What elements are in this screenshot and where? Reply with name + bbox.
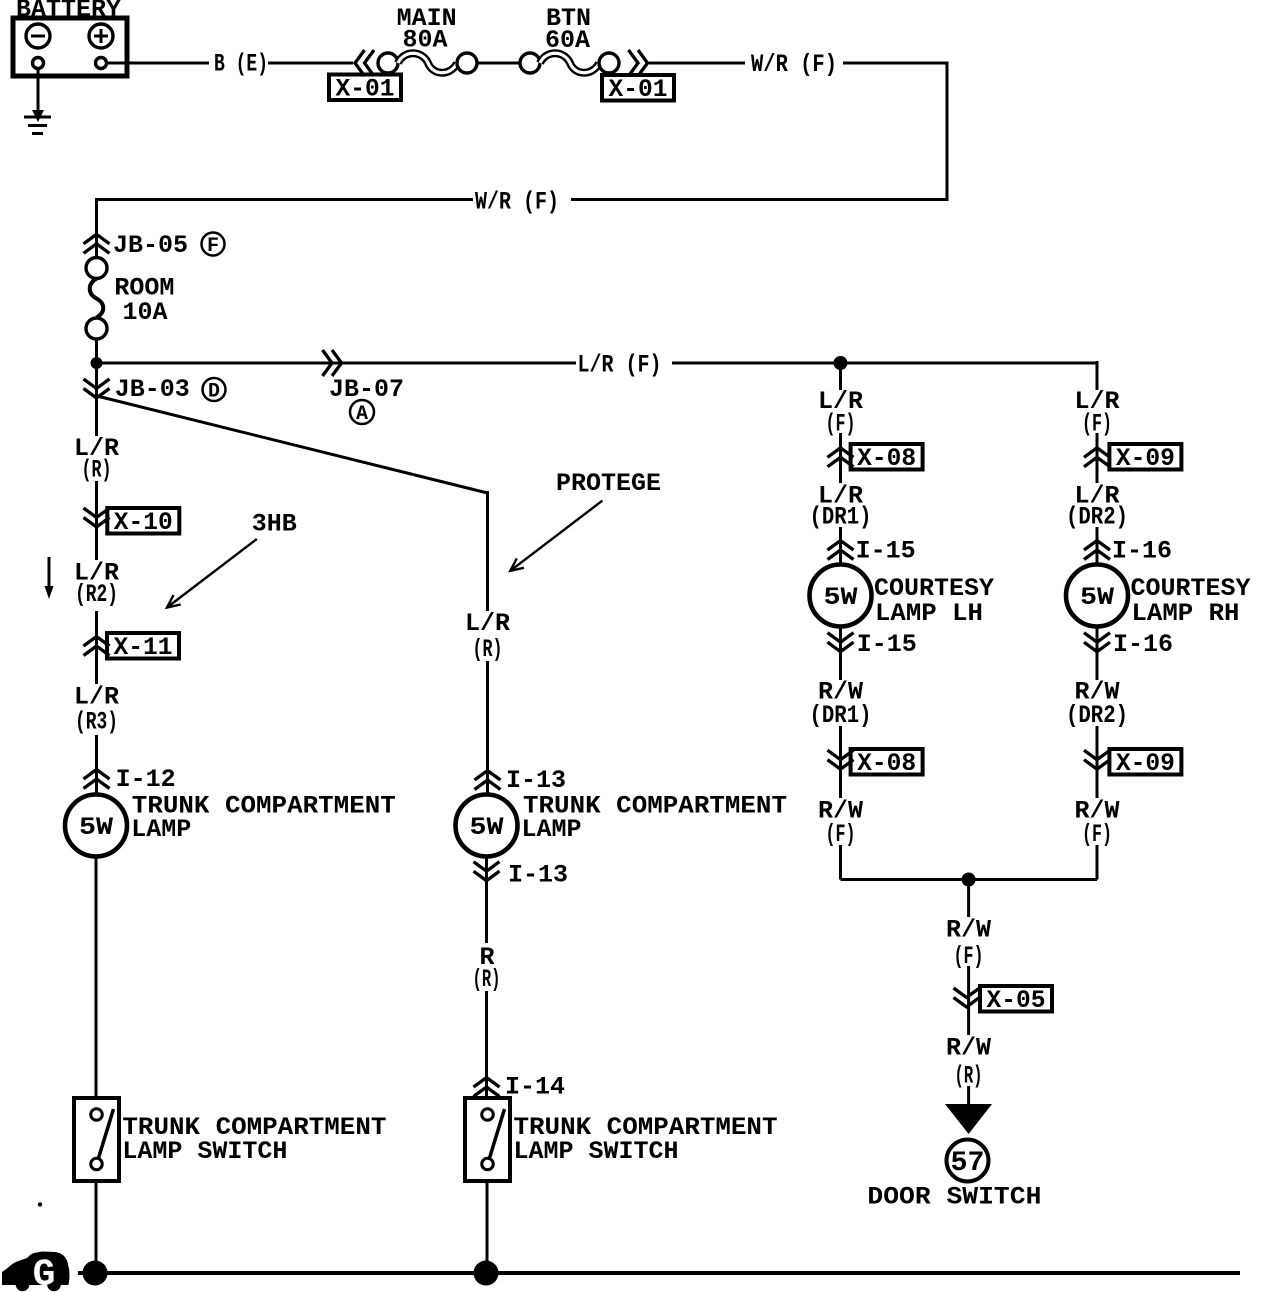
svg-text:X-09: X-09 [1116,444,1175,473]
connector chevron X-01 right [629,50,648,76]
connector X-08 upper [851,444,923,473]
wire R/W DR2 to X-09 lower [1096,726,1099,798]
stray dot [38,1202,42,1206]
svg-text:10A: 10A [123,298,168,327]
battery negative terminal [26,24,50,48]
svg-text:R/W: R/W [946,916,991,945]
svg-text:LAMP: LAMP [131,815,191,844]
connector chevron I-15 lower [828,633,854,652]
wire to X-08 upper [839,433,842,483]
svg-text:57: 57 [951,1148,985,1179]
svg-text:I-16: I-16 [1113,630,1173,659]
svg-text:D: D [208,381,220,404]
svg-text:I-15: I-15 [857,630,917,659]
bus courtesy lamps join [841,878,1098,881]
svg-text:(F): (F) [826,820,856,849]
wire PROTEGE branch vertical top [486,491,489,611]
svg-text:X-05: X-05 [987,986,1046,1015]
battery positive terminal [89,24,113,48]
wire (R3) to I-12 [95,735,98,795]
svg-text:F: F [207,235,219,258]
ground symbol [24,110,51,134]
wire DR2 to I-16 [1096,527,1099,565]
wire R/W F LH to bottom bus [839,845,842,880]
wire courtesy RH drop [1096,361,1099,390]
junction dot node A1 [91,357,103,369]
wire courtesy LH drop [839,363,842,390]
battery positive post [96,58,107,69]
wire switch to ground bus mid [486,1181,489,1273]
wire B(E) to connector X-01 [268,62,353,65]
wire R/W F to X-05 [967,966,970,1035]
wire DR1 to I-15 [839,527,842,565]
svg-text:JB-03: JB-03 [115,375,190,404]
junction chevron JB-03 [84,379,110,398]
ground bus [78,1271,1240,1275]
svg-text:LAMP: LAMP [522,815,582,844]
svg-text:5W: 5W [470,813,504,842]
svg-text:(DR1): (DR1) [810,701,872,730]
bus L/R(F) right segment [672,362,1099,365]
svg-text:3HB: 3HB [252,510,297,539]
wire lamp to switch left [95,857,98,1099]
svg-text:X-01: X-01 [609,75,668,104]
connector chevron X-08 upper [828,448,854,467]
circled letter A [350,400,374,426]
door switch pin 57 [947,1140,989,1182]
svg-text:(R3): (R3) [75,708,118,737]
wire W/R(F) to right corner [843,62,949,65]
connector X-09 lower [1109,749,1181,778]
svg-text:G: G [33,1254,56,1292]
trunk compartment lamp switch 3HB [74,1098,119,1181]
circled letter D [203,378,226,404]
arrow to door switch [945,1104,992,1134]
trunk compartment lamp Protege [456,795,518,857]
svg-text:W/R (F): W/R (F) [475,188,559,217]
wire diagonal PROTEGE branch [99,397,488,494]
junction dot ground mid [474,1261,499,1286]
svg-text:X-09: X-09 [1116,749,1175,778]
wire R(R) to I-14 [485,991,488,1098]
connector chevron X-10 [84,508,110,527]
connector chevron I-13 upper [475,771,501,790]
svg-text:A: A [356,403,368,426]
wire courtesy RH to R/W [1096,626,1099,680]
connector chevron X-05 [954,988,980,1007]
svg-text:LAMP LH: LAMP LH [875,599,983,628]
connector chevron I-13 lower [474,862,500,881]
wire L/R(R) to X-10 [95,481,98,560]
down arrow marker [45,557,54,599]
connector chevron I-16 upper [1084,541,1110,560]
svg-text:I-13: I-13 [508,861,568,890]
svg-text:L/R: L/R [465,609,510,638]
connector X-05 [980,986,1052,1015]
wire L/R(R) to I-13 [486,661,489,795]
svg-text:(DR2): (DR2) [1066,701,1128,730]
wire battery negative to ground [37,69,40,113]
wire courtesy LH to R/W [839,626,842,680]
wire (R2) to X-11 [95,611,98,684]
svg-text:B (E): B (E) [214,50,268,79]
svg-text:X-11: X-11 [114,633,173,662]
connector chevron X-11 [84,637,110,656]
wire junction to R/W F [967,880,970,918]
svg-text:(R2): (R2) [75,580,118,609]
svg-text:LAMP SWITCH: LAMP SWITCH [514,1137,679,1166]
fusible link MAIN 80A [378,53,477,73]
courtesy lamp LH [810,565,872,627]
connector chevron X-08 lower [828,750,854,769]
leader arrow PROTEGE [510,501,602,571]
wire W/R bus left segment [95,198,473,201]
svg-text:DOOR SWITCH: DOOR SWITCH [867,1183,1041,1212]
junction dot courtesy branch [834,356,848,370]
courtesy lamp RH [1066,565,1128,627]
svg-text:5W: 5W [79,813,113,842]
connector chevron I-12 [84,770,110,789]
bus L/R(F) left segment [97,362,577,365]
svg-text:5W: 5W [824,583,858,612]
svg-text:X-08: X-08 [857,444,916,473]
connector X-01 left [329,75,401,104]
connector chevron X-01 left [355,50,374,76]
wire battery positive to B(E) [107,62,209,65]
svg-text:JB-05: JB-05 [113,231,188,260]
junction dot door switch [962,873,976,887]
svg-text:W/R (F): W/R (F) [751,50,837,79]
wire R/W DR1 to X-08 lower [839,726,842,798]
connector X-09 upper [1109,444,1181,473]
connector chevron I-14 [474,1078,500,1097]
wire left vertical to ROOM fuse [95,198,98,258]
svg-text:80A: 80A [403,26,448,55]
battery negative post [33,58,44,69]
connector X-11 [107,633,179,662]
connector chevron X-09 lower [1084,750,1110,769]
svg-text:I-15: I-15 [856,537,916,566]
connector X-01 right [602,75,674,104]
wire BTN to W/R(F) [649,62,745,65]
junction dot ground left [83,1261,108,1286]
leader arrow 3HB [167,539,257,608]
trunk compartment lamp 3HB [65,795,127,857]
wire switch to ground bus left [95,1181,98,1273]
svg-text:60A: 60A [545,26,590,55]
wire W/R bus right segment [571,198,949,201]
connector chevron I-15 upper [828,541,854,560]
wire ROOM fuse to JB-03 [95,339,98,436]
connector chevron I-16 lower [1084,633,1110,652]
trunk compartment lamp switch Protege [465,1098,510,1181]
wire R/W R to door switch [967,1086,970,1106]
svg-text:(R): (R) [473,965,501,994]
wire MAIN to BTN [477,62,520,65]
svg-text:I-12: I-12 [116,765,176,794]
wire to X-09 upper [1096,433,1099,483]
junction chevron JB-05 [84,234,110,253]
ground point G body symbol [2,1252,70,1292]
connector X-10 [107,508,179,537]
fusible link BTN 60A [520,53,619,73]
junction chevron JB-07 [323,350,342,376]
svg-text:L/R (F): L/R (F) [578,351,662,380]
svg-text:PROTEGE: PROTEGE [556,469,661,498]
svg-text:5W: 5W [1080,583,1114,612]
svg-text:I-14: I-14 [505,1073,565,1102]
svg-text:I-16: I-16 [1112,537,1172,566]
svg-text:LAMP RH: LAMP RH [1132,599,1240,628]
svg-text:R/W: R/W [946,1034,991,1063]
circled letter F [202,233,225,259]
svg-text:X-01: X-01 [336,75,395,104]
svg-text:LAMP SWITCH: LAMP SWITCH [122,1137,287,1166]
wire lamp to R(R) [485,857,488,944]
svg-text:X-08: X-08 [857,749,916,778]
svg-text:(F): (F) [1082,820,1112,849]
svg-text:(R): (R) [473,635,503,664]
battery BAT [13,18,127,76]
wire right corner down [946,62,949,202]
fuse ROOM 10A [86,258,107,340]
wire R/W F RH to bottom bus [1096,845,1099,880]
svg-text:(R): (R) [82,456,112,485]
connector X-08 lower [851,749,923,778]
connector chevron X-09 upper [1084,448,1110,467]
svg-text:X-10: X-10 [114,508,173,537]
